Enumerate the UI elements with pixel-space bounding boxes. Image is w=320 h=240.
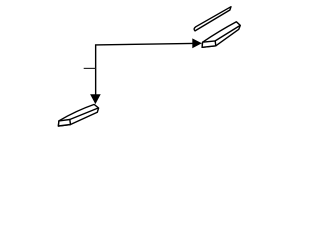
3D bar (bottom left) outline bbox=[58, 104, 98, 126]
flat strip (thin sheet, top right) bbox=[194, 7, 231, 31]
3D bar (bottom left) end cap bbox=[58, 120, 70, 127]
3D bar (top right) ridge edge bbox=[215, 25, 240, 41]
wire: horizontal segment with corner to vertical segment bbox=[96, 43, 193, 95]
3D bar (bottom left) ridge edge bbox=[70, 108, 99, 120]
arrowhead pointing right at top bar bbox=[193, 39, 202, 48]
arrowhead pointing down at bottom bar bbox=[91, 95, 101, 104]
3D bar (top right) end cap bbox=[202, 41, 216, 47]
3D bar (top right) outline bbox=[202, 22, 240, 48]
tick stub on vertical wire bbox=[84, 67, 96, 69]
